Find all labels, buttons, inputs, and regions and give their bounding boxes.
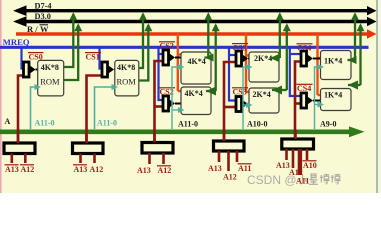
svg-text:A11: A11 bbox=[296, 177, 309, 186]
wire R/W drop column 2 bbox=[246, 34, 259, 96]
label U2 ROM bbox=[117, 77, 137, 87]
label U1 4K*8 bbox=[41, 63, 59, 72]
svg-text:A11-0: A11-0 bbox=[97, 119, 117, 128]
wire address tap col 3 bbox=[315, 64, 325, 129]
label upper 4K*4 col 1 bbox=[188, 57, 206, 66]
label A11-0 black bbox=[178, 120, 198, 129]
wire U2 data to D7-4 bbox=[139, 12, 147, 68]
wire CS3 from decoder column 2 bbox=[224, 62, 237, 143]
svg-text:2K*4: 2K*4 bbox=[254, 54, 272, 63]
decoder D1 (CS0) gate bbox=[4, 134, 35, 163]
decoder D3 (CS2) labels bbox=[137, 166, 171, 175]
svg-text:A12: A12 bbox=[223, 173, 237, 182]
wire data upper col 2 to D7-4 bbox=[270, 12, 284, 62]
ROM chip U2 bbox=[115, 60, 139, 96]
svg-text:A11-0: A11-0 bbox=[178, 120, 198, 129]
svg-text:A13: A13 bbox=[5, 165, 19, 174]
label upper 1K*4 col 3 bbox=[324, 57, 342, 66]
svg-text:4K*8: 4K*8 bbox=[41, 63, 59, 72]
decoder D4 (CS3) gate bbox=[214, 132, 245, 171]
svg-text:R /: R / bbox=[27, 24, 38, 34]
svg-text:A11: A11 bbox=[238, 164, 251, 173]
RAM chip upper col 3 bbox=[321, 51, 352, 80]
wire data lower col 3 to D3-0 bbox=[348, 23, 365, 89]
label CS3 lower bbox=[232, 88, 248, 97]
label D7-4 bbox=[35, 1, 52, 10]
svg-text:A12: A12 bbox=[158, 166, 172, 175]
label R/W bbox=[27, 24, 49, 34]
svg-text:4K*8: 4K*8 bbox=[117, 63, 135, 72]
wire address tap col 2 bbox=[243, 64, 253, 129]
ROM chip U1 bbox=[38, 60, 64, 96]
bus A wire bbox=[0, 126, 365, 137]
gate upper buffer col 1 bbox=[163, 50, 182, 65]
label A9-0 black bbox=[320, 120, 336, 129]
svg-text:A13: A13 bbox=[276, 161, 290, 170]
label CS3 upper bbox=[232, 43, 248, 52]
wire data upper col 3 to D7-4 bbox=[348, 12, 360, 64]
wire data lower col 2 to D3-0 bbox=[272, 23, 291, 94]
bus D3-0 wire bbox=[13, 16, 377, 27]
svg-text:CS1: CS1 bbox=[86, 53, 100, 62]
svg-text:ROM: ROM bbox=[40, 77, 60, 87]
svg-text:A10-0: A10-0 bbox=[247, 120, 267, 129]
wire address tap to U1 bbox=[31, 84, 42, 129]
gate upper buffer col 3 bbox=[301, 51, 321, 66]
wire data lower col 1 to D3-0 bbox=[206, 23, 220, 95]
wire address tap to U2 bbox=[95, 84, 119, 129]
wire MREQ drop to gate G2 bbox=[100, 47, 104, 69]
svg-text:A13: A13 bbox=[208, 164, 222, 173]
svg-text:D7-4: D7-4 bbox=[35, 1, 52, 10]
decoder D2 (CS1) labels bbox=[73, 165, 103, 174]
RAM chip lower col 2 bbox=[249, 88, 279, 113]
bus R/W wire bbox=[16, 29, 377, 38]
wire MREQ drop to column 1 gates bbox=[159, 47, 165, 100]
svg-text:A13: A13 bbox=[137, 166, 151, 175]
wire CS2 from decoder column 1 bbox=[155, 61, 165, 143]
gate G2 enable buffer bbox=[102, 62, 116, 77]
svg-text:ROM: ROM bbox=[117, 77, 137, 87]
gate lower buffer col 1 bbox=[163, 96, 182, 111]
gate G1 enable buffer bbox=[24, 62, 39, 77]
svg-text:1K*4: 1K*4 bbox=[324, 91, 342, 100]
border right strip bbox=[376, 0, 381, 193]
label A11-0 teal rom2 bbox=[97, 119, 117, 128]
wire MREQ drop to gate G1 bbox=[22, 47, 25, 69]
gate upper buffer col 2 bbox=[236, 51, 250, 66]
bus MREQ wire bbox=[0, 46, 369, 49]
svg-text:W: W bbox=[40, 24, 49, 34]
RAM chip upper col 2 bbox=[249, 52, 279, 82]
svg-text:A: A bbox=[5, 117, 11, 126]
svg-text:1K*4: 1K*4 bbox=[324, 57, 342, 66]
label lower 1K*4 col 3 bbox=[324, 91, 342, 100]
decoder D5 (CS4) labels bbox=[276, 161, 317, 186]
svg-text:4K*4: 4K*4 bbox=[185, 89, 203, 98]
wire U2 data to D3-0 bbox=[139, 23, 153, 80]
wire CS4 from decoder column 3 bbox=[295, 62, 302, 144]
wire U1 data to D7-4 bbox=[64, 12, 78, 67]
decoder D5 (CS4) gate bbox=[282, 130, 314, 175]
label A11-0 teal rom1 bbox=[35, 119, 55, 128]
wire MREQ drop to column 3 gates bbox=[290, 47, 302, 96]
bus D7-4 wire bbox=[13, 5, 377, 16]
wire address tap col 1 bbox=[172, 64, 185, 129]
label A10-0 black bbox=[247, 120, 267, 129]
svg-text:A10: A10 bbox=[303, 161, 317, 170]
svg-text:A13: A13 bbox=[74, 165, 88, 174]
decoder D3 (CS2) gate bbox=[142, 134, 173, 165]
decoder D2 (CS1) gate bbox=[73, 134, 104, 163]
watermark CSDN bbox=[247, 173, 341, 187]
label CS4 lower bbox=[297, 84, 313, 93]
RAM chip lower col 1 bbox=[181, 87, 211, 115]
wire CS0 from decoder D1 bbox=[18, 76, 25, 144]
label CS2 upper bbox=[159, 42, 175, 51]
label MREQ bbox=[3, 37, 30, 47]
label CS4 upper bbox=[297, 44, 313, 53]
label CS0 bbox=[28, 53, 44, 62]
wire MREQ drop to column 2 gates bbox=[229, 47, 237, 101]
label CS2 lower bbox=[159, 88, 175, 97]
wire data upper col 1 to D7-4 bbox=[204, 12, 213, 61]
wire R/W drop column 1 bbox=[178, 34, 191, 95]
pink left border strip bbox=[0, 0, 2, 193]
label lower 4K*4 col 1 bbox=[185, 89, 203, 98]
RAM chip lower col 3 bbox=[321, 89, 352, 111]
label U2 4K*8 bbox=[117, 63, 135, 72]
svg-text:A11-0: A11-0 bbox=[35, 119, 55, 128]
wire CS1 from decoder D2 bbox=[87, 76, 104, 144]
svg-text:4K*4: 4K*4 bbox=[188, 57, 206, 66]
gate lower buffer col 3 bbox=[301, 93, 321, 108]
label U1 ROM bbox=[40, 77, 60, 87]
label lower 2K*4 col 2 bbox=[253, 90, 271, 99]
decoder D1 (CS0) labels bbox=[5, 165, 35, 174]
decoder D4 (CS3) labels bbox=[208, 164, 252, 182]
RAM chip upper col 1 bbox=[181, 52, 211, 84]
label D3-0 bbox=[35, 12, 51, 21]
label CS1 bbox=[85, 53, 101, 62]
wire U1 data to D3-0 bbox=[64, 23, 82, 80]
gate lower buffer col 2 bbox=[236, 97, 250, 112]
svg-text:A12: A12 bbox=[21, 165, 35, 174]
wire R/W drop column 3 bbox=[318, 34, 331, 99]
svg-text:MREQ: MREQ bbox=[3, 37, 30, 47]
label A bbox=[5, 117, 11, 126]
label upper 2K*4 col 2 bbox=[254, 54, 272, 63]
svg-text:A9-0: A9-0 bbox=[320, 120, 336, 129]
svg-text:A12: A12 bbox=[90, 165, 104, 174]
svg-text:D3.0: D3.0 bbox=[35, 12, 51, 21]
svg-text:2K*4: 2K*4 bbox=[253, 90, 271, 99]
